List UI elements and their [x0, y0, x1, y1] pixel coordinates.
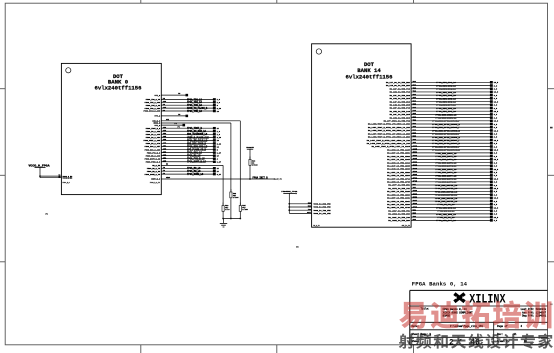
svg-text:Y23: Y23	[413, 142, 416, 144]
svg-text:AE23: AE23	[413, 173, 417, 176]
svg-text:3,5: 3,5	[494, 98, 497, 100]
svg-text:13,5: 13,5	[494, 169, 498, 171]
svg-text:3,5: 3,5	[494, 85, 497, 87]
svg-text:AB22: AB22	[413, 154, 417, 157]
svg-text:V23: V23	[413, 126, 416, 128]
svg-text:13,5: 13,5	[494, 111, 498, 113]
svg-text:1/16W: 1/16W	[233, 197, 239, 199]
svg-text:R9: R9	[166, 164, 168, 166]
svg-text:3,5: 3,5	[494, 162, 497, 164]
svg-text:U20: U20	[413, 213, 416, 215]
svg-text:AK2: AK2	[163, 126, 166, 129]
svg-text:3,5: 3,5	[494, 191, 497, 193]
svg-text:W21: W21	[413, 184, 416, 186]
svg-text:3,5: 3,5	[494, 105, 497, 107]
svg-text:13,5: 13,5	[494, 159, 498, 161]
svg-text:FPGA Banks 0, 14: FPGA Banks 0, 14	[412, 280, 468, 287]
svg-text:AD25: AD25	[413, 164, 417, 167]
svg-text:AG5: AG5	[163, 135, 166, 138]
svg-text:W26: W26	[413, 136, 416, 138]
svg-text:PU: PU	[296, 246, 298, 248]
svg-text:IO_L22N_14_VRN_R20: IO_L22N_14_VRN_R20	[388, 219, 410, 222]
svg-text:W25: W25	[413, 132, 416, 134]
svg-text:AA9: AA9	[163, 106, 166, 109]
svg-text:AB20: AB20	[413, 192, 417, 195]
svg-text:T23: T23	[413, 88, 416, 90]
svg-text:T9: T9	[163, 173, 165, 175]
svg-text:VTT_S: VTT_S	[155, 94, 161, 97]
svg-text:K22: K22	[308, 203, 311, 205]
svg-text:R20: R20	[413, 219, 416, 221]
svg-text:3,5: 3,5	[494, 146, 497, 148]
svg-text:13,5: 13,5	[494, 82, 498, 84]
svg-text:3,5: 3,5	[494, 89, 497, 91]
svg-text:AE22: AE22	[413, 170, 417, 173]
svg-text:V21: V21	[413, 210, 416, 212]
svg-text:3,5: 3,5	[494, 95, 497, 97]
svg-text:13,5: 13,5	[494, 150, 498, 152]
svg-text:AJ3: AJ3	[163, 129, 166, 132]
svg-text:6vlx240tff1156: 6vlx240tff1156	[346, 73, 394, 80]
svg-text:13,5: 13,5	[494, 178, 498, 180]
svg-text:AB21: AB21	[413, 151, 417, 154]
svg-text:R8: R8	[58, 176, 60, 178]
svg-text:AJ3: AJ3	[163, 153, 166, 156]
svg-text:17: 17	[217, 128, 219, 130]
svg-text:AE20: AE20	[413, 202, 417, 205]
svg-text:3,5: 3,5	[494, 108, 497, 110]
svg-text:INIT_B_0: INIT_B_0	[151, 178, 160, 181]
svg-text:3,5: 3,5	[494, 143, 497, 145]
svg-text:13,5: 13,5	[494, 130, 498, 132]
svg-text:PU: PU	[178, 114, 180, 116]
svg-text:V9: V9	[163, 98, 165, 100]
svg-text:VTT_S: VTT_S	[155, 115, 161, 118]
svg-text:5: 5	[217, 149, 218, 151]
svg-text:AC23: AC23	[413, 157, 417, 160]
svg-text:PROG_PUDC_B_0: PROG_PUDC_B_0	[146, 160, 160, 163]
svg-text:AA20: AA20	[413, 189, 417, 192]
svg-text:4,17: 4,17	[217, 173, 221, 176]
svg-text:T9: T9	[163, 167, 165, 169]
svg-text:3,5: 3,5	[494, 194, 497, 196]
svg-text:13,5: 13,5	[494, 198, 498, 200]
svg-text:13,5: 13,5	[494, 207, 498, 209]
svg-text:VCCO_0_FPGA: VCCO_0_FPGA	[29, 164, 51, 167]
svg-text:FPGA_TMS_LS: FPGA_TMS_LS	[187, 110, 203, 113]
svg-text:AA25: AA25	[413, 148, 417, 151]
svg-text:1/16W: 1/16W	[252, 165, 258, 167]
svg-text:T20: T20	[413, 216, 416, 218]
svg-text:N23: N23	[413, 84, 416, 86]
svg-text:FPGA_DOUT_B_LS: FPGA_DOUT_B_LS	[187, 161, 207, 164]
svg-text:3,5: 3,5	[494, 211, 497, 213]
svg-text:FPGA_INIT_B: FPGA_INIT_B	[253, 176, 269, 179]
svg-text:AA9: AA9	[163, 100, 166, 103]
svg-text:R22: R22	[413, 94, 416, 96]
svg-text:PROG_B_0_PD: PROG_B_0_PD	[150, 182, 160, 184]
svg-text:R9: R9	[58, 175, 60, 177]
svg-text:PROG_DONE_0_V9: PROG_DONE_0_V9	[145, 173, 161, 176]
svg-text:3,5: 3,5	[494, 137, 497, 139]
svg-text:AG5: AG5	[163, 160, 166, 163]
svg-text:13,5: 13,5	[494, 140, 498, 142]
svg-text:R25: R25	[413, 113, 416, 115]
svg-text:3,5: 3,5	[494, 153, 497, 155]
svg-text:3,5: 3,5	[494, 185, 497, 187]
svg-text:3,5: 3,5	[494, 175, 497, 177]
svg-text:AK2: AK2	[163, 138, 166, 141]
svg-text:R26: R26	[413, 116, 416, 118]
svg-text:PU: PU	[178, 93, 180, 95]
svg-text:3,5: 3,5	[494, 172, 497, 174]
svg-text:3,5: 3,5	[494, 133, 497, 135]
svg-text:3,5: 3,5	[494, 220, 497, 222]
svg-text:17: 17	[217, 171, 219, 173]
svg-text:VCCO_0_R8: VCCO_0_R8	[63, 178, 73, 180]
svg-text:4A-17,71: 4A-17,71	[274, 178, 282, 181]
svg-text:3,5: 3,5	[494, 156, 497, 158]
svg-text:13,5: 13,5	[494, 121, 498, 123]
svg-text:3,5: 3,5	[494, 204, 497, 206]
svg-text:V9: V9	[163, 110, 165, 112]
svg-text:AF20: AF20	[413, 205, 417, 208]
svg-text:N22: N22	[413, 81, 416, 83]
svg-text:PD_B_14: PD_B_14	[313, 225, 319, 227]
svg-text:17: 17	[217, 155, 219, 157]
svg-text:13,5: 13,5	[494, 217, 498, 219]
svg-text:PU: PU	[175, 123, 177, 125]
svg-text:3,5: 3,5	[494, 127, 497, 129]
svg-text:AD21: AD21	[413, 199, 417, 202]
svg-text:PU: PU	[178, 126, 180, 128]
svg-text:1/16: 1/16	[225, 209, 229, 211]
svg-text:PDDC_B_0: PDDC_B_0	[63, 182, 70, 184]
svg-text:FPGA_LED_DS7_LS: FPGA_LED_DS7_LS	[436, 219, 456, 222]
svg-text:1,17: 1,17	[217, 152, 221, 154]
svg-text:3,5: 3,5	[494, 166, 497, 168]
svg-text:1,17: 1,17	[217, 162, 221, 164]
svg-text:1/16W: 1/16W	[242, 209, 248, 211]
svg-text:FPGA_DONE_LS: FPGA_DONE_LS	[187, 173, 204, 176]
svg-text:AC21: AC21	[413, 196, 417, 199]
svg-text:3,5: 3,5	[494, 124, 497, 126]
svg-text:3,5: 3,5	[494, 201, 497, 203]
svg-text:13,5: 13,5	[494, 92, 498, 94]
svg-text:AE24: AE24	[166, 176, 170, 179]
svg-text:T22: T22	[413, 120, 416, 122]
svg-text:PU: PU	[295, 193, 297, 195]
svg-text:PROG_CCLK_0_AC8: PROG_CCLK_0_AC8	[143, 110, 160, 113]
svg-text:V9: V9	[163, 104, 165, 106]
svg-text:VCC2V5: VCC2V5	[246, 146, 254, 149]
svg-text:AJ3: AJ3	[163, 141, 166, 144]
svg-text:VCCO_14_AA1_VRN: VCCO_14_AA1_VRN	[314, 212, 332, 215]
svg-text:17: 17	[217, 168, 219, 170]
svg-text:CMP_14_PD: CMP_14_PD	[402, 225, 410, 227]
svg-text:U22: U22	[413, 123, 416, 125]
svg-text:PROGRAM_FPGA: PROGRAM_FPGA	[281, 190, 297, 193]
svg-text:M22: M22	[308, 206, 311, 208]
svg-text:3,5: 3,5	[494, 117, 497, 119]
svg-text:AK2: AK2	[163, 150, 166, 153]
svg-text:Y21: Y21	[413, 187, 416, 189]
svg-text:AJ1: AJ1	[166, 118, 169, 121]
svg-text:T9: T9	[163, 170, 165, 172]
svg-text:6vlx240tff1156: 6vlx240tff1156	[95, 84, 143, 91]
svg-text:3,5: 3,5	[494, 182, 497, 184]
svg-text:R23: R23	[413, 97, 416, 99]
svg-text:U25: U25	[413, 104, 416, 106]
svg-text:Y22: Y22	[413, 139, 416, 141]
svg-text:AD26: AD26	[413, 167, 417, 170]
svg-text:AF25: AF25	[413, 180, 417, 183]
svg-text:AG5: AG5	[163, 147, 166, 150]
svg-text:3,5: 3,5	[494, 114, 497, 116]
svg-text:3,5: 3,5	[494, 214, 497, 216]
svg-text:13,5: 13,5	[494, 101, 498, 103]
svg-text:P23: P23	[413, 107, 416, 109]
svg-text:T22: T22	[308, 209, 311, 211]
svg-text:13,5: 13,5	[494, 188, 498, 190]
